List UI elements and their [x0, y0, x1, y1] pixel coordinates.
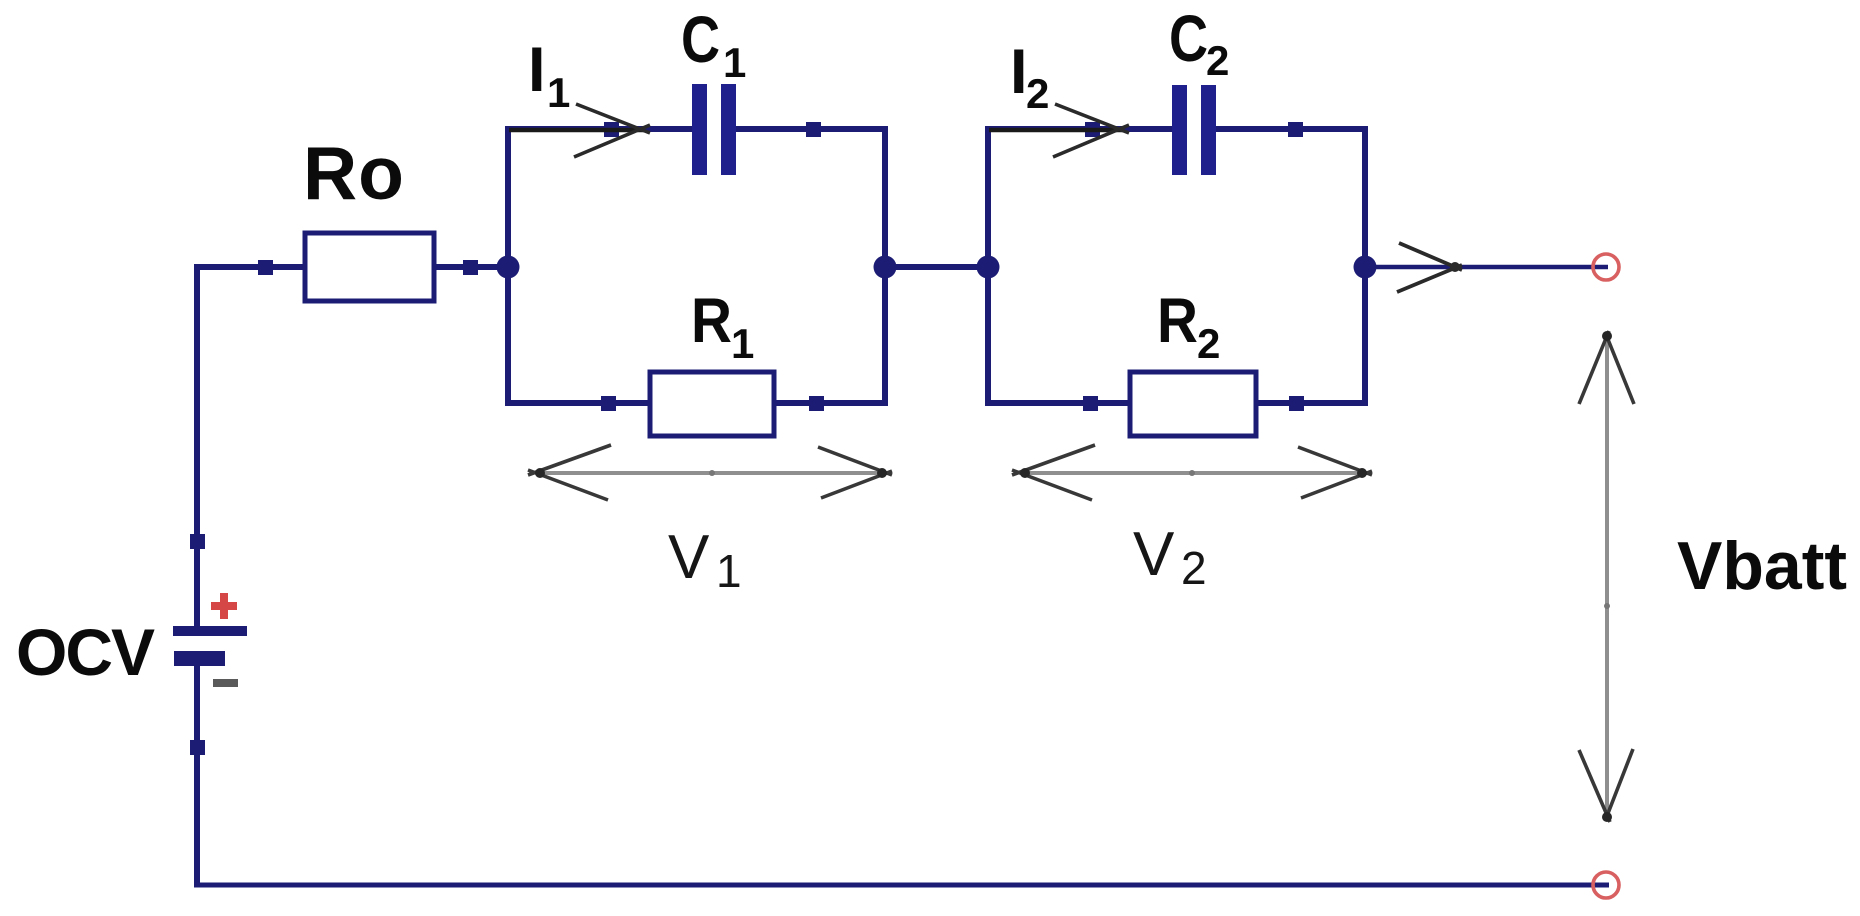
capacitor C2 [1172, 85, 1216, 175]
svg-text:R: R [1157, 285, 1198, 355]
wire: node A to node B connecting RC1 and RC2 [885, 264, 988, 270]
V1 arrow apex dots [535, 468, 545, 478]
Vbatt arrow apex dots [1602, 331, 1612, 341]
V1 arrow mid tick [709, 470, 715, 476]
pin dot C1 left [604, 122, 619, 137]
svg-text:C: C [1169, 1, 1208, 75]
capacitor C1 [692, 84, 736, 175]
output arrow apex dot [1450, 262, 1460, 272]
battery minus mark [213, 679, 238, 687]
pin dot C1 right [806, 122, 821, 137]
svg-text:1: 1 [723, 39, 746, 86]
junction node A [497, 256, 520, 279]
pin dot C2 left [1085, 122, 1100, 137]
resistor R1 [650, 372, 774, 436]
pin dot C2 right [1288, 122, 1303, 137]
terminal negative (bottom right) [1593, 872, 1619, 898]
wire: RC1 top wire left of C1 [505, 126, 692, 132]
svg-text:Ro: Ro [303, 131, 405, 215]
output current arrow head [1397, 243, 1462, 292]
wire: bottom horizontal return wire [194, 883, 1609, 888]
svg-text:2: 2 [1206, 37, 1229, 84]
wire: RC1 loop left vertical [505, 126, 511, 406]
svg-text:V: V [668, 523, 710, 592]
current arrow I1 head [574, 104, 650, 157]
wire: RC2 bottom wire through R2 [985, 400, 1368, 406]
V2 measurement arrow [1022, 471, 1364, 475]
svg-text:C: C [681, 2, 720, 76]
junction node RC2 right [1354, 256, 1377, 279]
pin dot R2 left [1083, 396, 1098, 411]
svg-text:R: R [691, 285, 732, 355]
svg-text:I: I [528, 35, 546, 105]
pin dot R1 right [809, 396, 824, 411]
wire: RC1 bottom wire through R1 [505, 400, 888, 406]
junction node RC1 right [874, 256, 897, 279]
V2 arrow mid tick [1189, 470, 1195, 476]
svg-text:2: 2 [1181, 542, 1207, 594]
current arrow I2 head [1053, 104, 1129, 157]
pin dot battery top [190, 534, 205, 549]
battery OCV negative plate [174, 651, 225, 666]
svg-text:2: 2 [1026, 70, 1049, 117]
pin dot R1 left [601, 396, 616, 411]
wire: RC1 top wire right of C1 [736, 126, 888, 132]
wire: main wire from battery to node A [194, 264, 508, 270]
svg-text:I: I [1010, 37, 1028, 107]
battery OCV positive plate [173, 626, 247, 636]
wire: output wire from node C to positive terminal [1365, 265, 1608, 270]
resistor R2 [1130, 372, 1256, 436]
svg-text:2: 2 [1197, 320, 1220, 367]
wire: left vertical upper segment (battery top lead) [194, 264, 200, 626]
wire: RC1 loop right vertical [882, 126, 888, 406]
Vbatt arrow mid tick [1604, 603, 1610, 609]
svg-text:1: 1 [547, 69, 570, 116]
current arrow I2 shaft [989, 128, 1124, 133]
svg-text:1: 1 [716, 545, 742, 597]
pin dot Ro left [258, 260, 273, 275]
resistor Ro [305, 233, 434, 301]
pin dot battery bottom [190, 740, 205, 755]
pin dot R2 right [1289, 396, 1304, 411]
wire: RC2 loop right vertical [1362, 126, 1368, 406]
V1 measurement arrow [537, 471, 884, 475]
wire: RC2 top wire right of C2 [1216, 126, 1368, 132]
svg-text:OCV: OCV [16, 615, 155, 689]
terminal positive (top right) [1593, 254, 1619, 280]
wire: left vertical lower segment (battery bottom lead) [194, 666, 200, 888]
pin dot Ro right [463, 260, 478, 275]
current arrow I1 shaft [509, 128, 644, 133]
svg-text:1: 1 [731, 320, 754, 367]
V2 arrow apex dots [1020, 468, 1030, 478]
battery plus mark [211, 593, 237, 619]
svg-text:V: V [1133, 520, 1175, 589]
svg-text:Vbatt: Vbatt [1677, 528, 1847, 604]
junction node RC2 left [977, 256, 1000, 279]
wire: RC2 loop left vertical [985, 126, 991, 406]
Vbatt measurement arrow [1605, 336, 1609, 818]
wire: RC2 top wire left of C2 [985, 126, 1172, 132]
